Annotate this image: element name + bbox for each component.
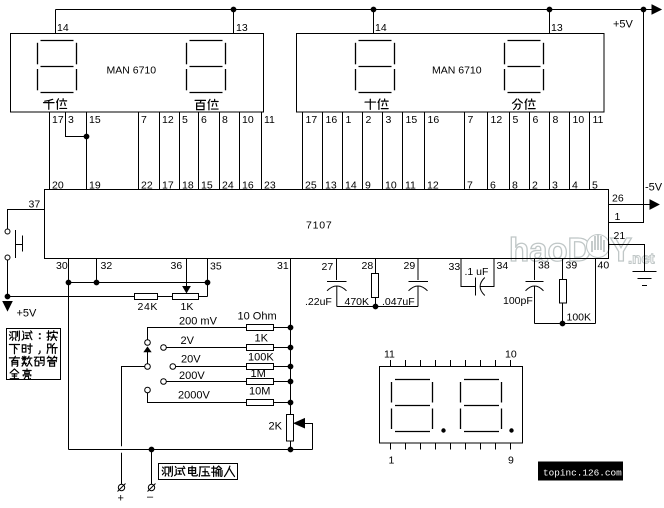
note text line1 ceshi:an	[9, 331, 19, 341]
svg-text:-5V: -5V	[645, 182, 663, 194]
display U2 digit tenths	[505, 41, 544, 93]
wire 200mV row	[148, 328, 247, 340]
svg-text:17: 17	[52, 114, 64, 126]
svg-text:16: 16	[242, 180, 254, 192]
svg-text:29: 29	[404, 260, 416, 272]
svg-text:7: 7	[467, 180, 473, 192]
svg-text:8: 8	[512, 180, 518, 192]
svg-text:20: 20	[52, 180, 64, 192]
svg-text:7: 7	[141, 114, 147, 126]
svg-text:5: 5	[182, 114, 188, 126]
svg-text:9: 9	[508, 455, 514, 467]
svg-text:3: 3	[68, 114, 74, 126]
svg-text:11: 11	[593, 114, 604, 126]
svg-text:25: 25	[305, 180, 317, 192]
wire R6 1M to bus	[274, 381, 291, 383]
wire bottom rail	[69, 449, 313, 451]
svg-text:–: –	[147, 491, 154, 503]
svg-text:12: 12	[162, 114, 174, 126]
probe - terminal	[148, 484, 154, 490]
svg-text:200 mV: 200 mV	[179, 316, 218, 328]
label baiwei (hundreds)	[195, 100, 205, 109]
op-amp U3 ICL7107 box	[45, 190, 609, 259]
svg-text:22: 22	[141, 180, 153, 192]
svg-text:7107: 7107	[306, 220, 333, 232]
svg-text:1: 1	[615, 211, 621, 223]
switch SW1 contact 2V	[161, 345, 167, 351]
svg-text:38: 38	[538, 260, 550, 272]
svg-text:20V: 20V	[181, 354, 201, 366]
wire 2K wiper	[305, 424, 313, 450]
node junction L-pin13	[231, 7, 236, 12]
svg-text:21: 21	[614, 230, 626, 242]
wire 2V row	[166, 347, 246, 349]
svg-text:28: 28	[362, 260, 374, 272]
display U1 MAN6710 box	[11, 34, 264, 113]
watermark haoDIY.net	[509, 231, 655, 268]
wire +5V rail to 24K	[8, 296, 135, 298]
svg-text:13: 13	[325, 180, 337, 192]
svg-text:MAN 6710: MAN 6710	[432, 65, 482, 77]
resistor R10 100K body	[562, 259, 564, 280]
svg-text:35: 35	[210, 261, 222, 273]
svg-text:8: 8	[222, 114, 228, 126]
node junction R-pin13	[547, 7, 552, 12]
note text line2 xiashi,suo	[9, 345, 19, 354]
wire -probe down	[151, 450, 153, 485]
svg-text:2V: 2V	[181, 335, 195, 347]
wire 2000V row	[148, 393, 247, 403]
node junction bus bottom	[288, 447, 293, 452]
svg-text:24K: 24K	[138, 301, 158, 313]
svg-text:2: 2	[532, 180, 538, 192]
svg-text:15: 15	[406, 114, 418, 126]
display pinout box	[380, 367, 523, 444]
svg-text:topinc.126.com: topinc.126.com	[543, 468, 622, 479]
capacitor C1 .22uF	[336, 259, 338, 281]
svg-text:10 Ohm: 10 Ohm	[238, 311, 277, 323]
svg-text:MAN 6710: MAN 6710	[107, 65, 157, 77]
resistor R6 1M body	[247, 379, 274, 385]
svg-text:2K: 2K	[269, 421, 283, 433]
svg-text:23: 23	[264, 180, 276, 192]
svg-text:30: 30	[56, 260, 68, 272]
svg-text:+5V: +5V	[613, 19, 634, 31]
svg-text:14: 14	[57, 22, 69, 34]
wire R3 10Ohm to bus	[274, 327, 291, 329]
display U2 MAN6710 box	[297, 34, 605, 113]
svg-text:7: 7	[468, 114, 474, 126]
wire common to +probe	[122, 367, 145, 485]
wire 200V row	[166, 381, 246, 383]
svg-text:24: 24	[222, 180, 234, 192]
wire 1K to pin35	[199, 296, 208, 298]
node junction pin30	[66, 280, 71, 285]
svg-text:17: 17	[162, 180, 174, 192]
wires U2 segment pins to 7107	[302, 112, 304, 190]
switch SW1 contact 20V	[170, 364, 176, 370]
capacitor C2 .047uF	[417, 259, 419, 281]
wire +5V top rail	[56, 9, 653, 11]
node junction pin32	[94, 280, 99, 285]
resistor R4 1K body	[247, 345, 274, 351]
switch SW1 wiper arrow	[147, 352, 149, 364]
capacitor C4 100pF	[534, 259, 536, 281]
node junction bus R4 1K	[288, 345, 293, 350]
power +5V arrow down	[3, 302, 12, 311]
pinout top pins	[391, 360, 511, 367]
note text line3 youshumaguan	[9, 356, 19, 366]
switch S1 test button contact B	[5, 255, 10, 260]
svg-text:16: 16	[428, 114, 440, 126]
svg-text:+5V: +5V	[17, 308, 38, 320]
svg-text:1: 1	[389, 455, 395, 467]
switch SW1 contact 2000V	[145, 387, 151, 393]
svg-text:17: 17	[306, 114, 318, 126]
potentiometer R8 2K body	[287, 415, 294, 442]
label qianwei (thousands)	[44, 99, 54, 109]
display U1 digit hundreds	[187, 41, 226, 93]
svg-text:.047uF: .047uF	[382, 296, 415, 308]
svg-text:10M: 10M	[249, 386, 270, 398]
label fenwei (tenths)	[512, 99, 522, 109]
svg-text:5: 5	[513, 114, 519, 126]
svg-text:32: 32	[101, 260, 113, 272]
svg-text:36: 36	[171, 260, 183, 272]
svg-text:1K: 1K	[255, 333, 269, 345]
svg-text:.1 uF: .1 uF	[465, 266, 489, 278]
potentiometer R8 wiper arrow	[294, 419, 304, 428]
svg-text:14: 14	[375, 22, 387, 34]
pinout bottom pins	[391, 443, 511, 450]
wire ref bus 30-32-35	[69, 282, 208, 284]
node +5V junction	[5, 294, 10, 299]
svg-text:11: 11	[405, 180, 416, 192]
switch SW1 contact 200mV	[145, 340, 151, 346]
note text line4 quanliang	[10, 369, 19, 379]
svg-text:1M: 1M	[251, 368, 266, 380]
probe + terminal	[118, 484, 124, 490]
svg-text:15: 15	[201, 180, 213, 192]
svg-text:13: 13	[551, 22, 563, 34]
wire 7107 pin26 -5V	[609, 204, 651, 206]
svg-text:1: 1	[346, 114, 352, 126]
svg-text:14: 14	[345, 180, 357, 192]
wire R7 10M to bus	[274, 402, 291, 404]
svg-text:16: 16	[326, 114, 338, 126]
svg-text:33: 33	[449, 261, 461, 273]
pinout digit left dp	[441, 428, 445, 432]
node junction bus R6 1M	[288, 379, 293, 384]
wire R5 100K to bus	[274, 366, 291, 368]
wire U1 pin14	[55, 10, 57, 34]
svg-text:6: 6	[490, 180, 496, 192]
svg-text:10: 10	[505, 349, 517, 361]
svg-text:34: 34	[497, 260, 509, 272]
wire 24K to 1K	[158, 296, 173, 298]
note box voltage input	[159, 464, 238, 480]
badge topinc.126.com	[538, 462, 623, 481]
node junction pin3/pin15	[84, 134, 89, 139]
wire U1 pin13	[233, 10, 235, 34]
wire R4 1K to bus	[274, 347, 291, 349]
wire U2 pin14	[373, 10, 375, 34]
wire 7107 pin32	[96, 259, 98, 283]
svg-text:37: 37	[29, 199, 41, 211]
capacitor C3 .1uF pins 33-34	[461, 259, 476, 287]
svg-text:2000V: 2000V	[178, 390, 210, 402]
svg-text:11: 11	[264, 114, 275, 126]
svg-text:10: 10	[385, 180, 397, 192]
pinout digit left	[392, 380, 433, 432]
wire C1-R9-C2 link	[337, 306, 418, 308]
svg-text:19: 19	[89, 180, 101, 192]
wire 7107 pin31 bus	[290, 259, 292, 415]
svg-text:31: 31	[277, 260, 289, 272]
svg-text:9: 9	[365, 180, 371, 192]
wire 2K to bottom rail	[290, 441, 292, 450]
wire 7107 pin21 to ground	[609, 245, 645, 272]
wire 7107 pin37	[8, 210, 45, 229]
pinout digit right dp	[509, 428, 513, 432]
note box test caption	[7, 329, 61, 380]
wiper arrow onto 1K	[183, 287, 190, 293]
node junction R10 bottom	[560, 321, 565, 326]
svg-text:26: 26	[612, 193, 624, 205]
ground	[633, 271, 657, 273]
svg-text:3: 3	[552, 180, 558, 192]
resistor R3 10Ohm body	[247, 325, 274, 331]
svg-text:39: 39	[566, 260, 578, 272]
resistor R9 470K body	[375, 259, 377, 274]
svg-text:100K: 100K	[248, 352, 274, 364]
wire 20V row	[176, 366, 247, 368]
wire 7107 pin1 to +5V rail	[609, 10, 644, 223]
switch S1 test button contact A	[5, 229, 10, 234]
svg-text:8: 8	[553, 114, 559, 126]
node junction -probe	[149, 447, 154, 452]
svg-text:27: 27	[322, 261, 334, 273]
svg-text:200V: 200V	[179, 370, 205, 382]
pinout digit right	[461, 380, 502, 432]
svg-text:470K: 470K	[345, 296, 370, 308]
svg-text:100K: 100K	[567, 312, 592, 324]
label shiwei (tens)	[365, 99, 375, 109]
svg-text:2: 2	[366, 114, 372, 126]
svg-text:1K: 1K	[181, 301, 194, 313]
switch SW1 common pole	[145, 364, 151, 370]
svg-text:11: 11	[384, 349, 395, 361]
svg-text:.22uF: .22uF	[305, 296, 332, 308]
wire 7107 pin40	[595, 259, 597, 324]
note text ceshidianyashuru	[162, 466, 172, 476]
node junction bus R3 10Ohm	[288, 325, 293, 330]
svg-text:10: 10	[242, 114, 254, 126]
wire 7107 pin35 down	[207, 259, 209, 297]
svg-text:40: 40	[598, 260, 610, 272]
svg-text:5: 5	[592, 180, 598, 192]
node junction +5V rail corner	[641, 7, 646, 12]
svg-text:.net: .net	[628, 251, 655, 268]
node junction bus R5 100K	[288, 364, 293, 369]
svg-text:15: 15	[89, 114, 101, 126]
wire 7107 pin30 down	[68, 259, 70, 450]
svg-text:10: 10	[573, 114, 585, 126]
resistor R1 24K body	[135, 294, 158, 300]
node junction pin35	[205, 280, 210, 285]
svg-text:6: 6	[533, 114, 539, 126]
svg-text:12: 12	[491, 114, 503, 126]
switch SW1 contact 200V	[161, 379, 167, 385]
wire C4-R10-pin40 link	[535, 323, 596, 325]
svg-text:13: 13	[236, 22, 248, 34]
node junction R-pin14	[371, 7, 376, 12]
switch S1 actuator	[16, 230, 23, 258]
node junction R9 bottom	[373, 304, 378, 309]
svg-text:haoD: haoD	[509, 231, 592, 268]
svg-text:4: 4	[572, 180, 578, 192]
wire button to +5V node	[7, 260, 9, 297]
wires U1 segment pins to 7107	[49, 112, 51, 190]
wire +5V arrow terminal	[652, 5, 661, 14]
svg-text:+: +	[118, 493, 124, 505]
display U2 digit tens	[356, 41, 395, 93]
wire 7107 pin36 wiper	[186, 259, 188, 288]
svg-text:18: 18	[182, 180, 194, 192]
wire U2 pin13	[549, 10, 551, 34]
node junction bus R7 10M	[288, 400, 293, 405]
svg-text:12: 12	[427, 180, 439, 192]
resistor R7 10M body	[247, 400, 274, 406]
svg-text:100pF: 100pF	[503, 295, 533, 307]
potentiometer R2 1K body	[173, 294, 199, 300]
resistor R5 100K body	[247, 364, 274, 370]
svg-text:6: 6	[201, 114, 207, 126]
svg-text:3: 3	[386, 114, 392, 126]
display U1 digit thousands	[38, 41, 77, 93]
